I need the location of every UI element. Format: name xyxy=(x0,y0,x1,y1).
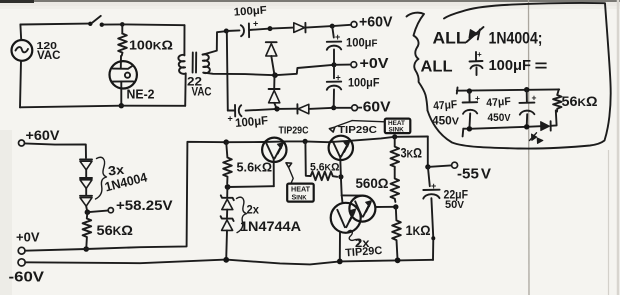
paper crease vertical line xyxy=(528,0,531,295)
wire: secondary bottom to middle rail xyxy=(203,73,275,76)
node: Q2 emitter / R4 xyxy=(338,174,343,179)
node: +60V cap top xyxy=(330,24,335,29)
zener Z2 1N4744A xyxy=(221,216,234,221)
wire: node to D4 xyxy=(277,108,297,110)
wire: top rail to cap C1 xyxy=(226,29,239,32)
node: cap A top xyxy=(467,88,472,93)
wire: 0V rail through Q1 Q2 xyxy=(226,137,428,143)
wire: down from node xyxy=(305,141,310,176)
wire: -60V rail across bottom xyxy=(25,260,433,265)
brace 2x 1N4744A xyxy=(237,197,247,232)
wire: transformer primary down xyxy=(183,25,185,55)
node: bottom junction xyxy=(119,103,124,108)
capacitor C2 100uF (series bottom) xyxy=(234,105,236,117)
wire xyxy=(85,170,87,178)
svg-text:3KΩ: 3KΩ xyxy=(401,145,423,160)
cap doodle xyxy=(470,52,483,75)
wire: node down to D3 xyxy=(273,75,275,89)
resistor R5 3k xyxy=(391,137,400,170)
wire: node to +60V terminal xyxy=(332,25,351,26)
AC source V1 circle xyxy=(12,40,33,61)
node: 56k bottom on 0V rail xyxy=(83,246,89,252)
svg-text:100μF: 100μF xyxy=(348,78,380,90)
wire: zener to -60V rail xyxy=(225,230,228,259)
terminal -60V xyxy=(352,105,358,111)
svg-text:-55V: -55V xyxy=(457,166,491,183)
wire: source bottom to corner xyxy=(20,61,21,108)
wire: 0V rail to regulator top xyxy=(25,142,226,251)
svg-text:5.6KΩ: 5.6KΩ xyxy=(237,160,273,174)
svg-text:+58.25V: +58.25V xyxy=(116,197,173,213)
svg-text:47μF: 47μF xyxy=(486,96,512,110)
wire: switch to resistor node xyxy=(103,23,122,25)
wire: Q2 emitter down xyxy=(340,156,342,195)
node: 0V rail / 3k top + heat sink box 2 xyxy=(392,134,397,139)
wire: node to -55V terminal xyxy=(428,165,451,167)
svg-text:+: + xyxy=(477,50,482,59)
wire: terminal to diode chain xyxy=(25,143,87,157)
wire: 56k down to diode xyxy=(551,111,557,126)
wire: secondary top to top rail xyxy=(203,31,226,55)
node: resistor top junction xyxy=(120,22,125,27)
svg-text:TIP29C: TIP29C xyxy=(338,124,377,136)
node: output xyxy=(425,164,430,169)
node on -60V rail xyxy=(223,257,229,263)
svg-text:+: + xyxy=(253,19,258,29)
resistor R6 560 xyxy=(391,169,400,202)
resistor 56k (bubble) xyxy=(553,89,561,111)
sub-circuit bottom wire xyxy=(463,127,527,137)
wire: tap to terminal xyxy=(87,211,107,213)
capacitor C1 100uF (series top) xyxy=(241,25,244,36)
node: cap B top xyxy=(524,87,529,92)
diode (bubble, points right) xyxy=(541,122,550,131)
wire: node to transformer xyxy=(122,23,184,26)
svg-text:+0V: +0V xyxy=(360,56,389,72)
svg-text:100μF: 100μF xyxy=(233,4,267,18)
wire: Q3 emitter to -60V rail xyxy=(339,232,341,261)
wire: node to -60V terminal xyxy=(334,107,352,109)
diode D7 1N4004 xyxy=(80,195,92,197)
transformer T1 core xyxy=(193,53,197,73)
wire: primary bottom xyxy=(184,73,187,106)
svg-text:+: + xyxy=(335,32,340,42)
resistor R7 1k xyxy=(392,207,401,257)
heat sink box 1 xyxy=(287,184,314,202)
terminal -60V input xyxy=(18,259,25,266)
resistor R1 100k ohm lead xyxy=(121,24,123,33)
NE-2 leads xyxy=(120,56,123,106)
brace 3x 1N4004 xyxy=(96,157,107,199)
terminal +58.25V xyxy=(108,208,113,213)
wire: node to diode D1 xyxy=(270,28,294,29)
terminal +0V xyxy=(351,62,357,68)
wire: 0V rail elbow down to output xyxy=(427,137,429,167)
svg-text:-60V: -60V xyxy=(358,100,391,116)
diode D2 (vertical, points up) xyxy=(266,41,277,43)
node: -60V cap bottom xyxy=(331,105,336,110)
terminal +0V input xyxy=(18,247,25,254)
node on -60V rail (1k) xyxy=(395,257,401,263)
node +58.25V tap xyxy=(85,209,91,215)
wire: C2 to bottom node xyxy=(246,109,277,111)
bubble outline left squiggle xyxy=(407,13,428,111)
node: diode chain top xyxy=(268,26,273,31)
node: top rail left xyxy=(224,29,229,34)
node: zener ref xyxy=(225,184,231,190)
svg-text:100KΩ: 100KΩ xyxy=(129,38,173,53)
wire: +60V cap column top xyxy=(332,26,334,37)
resistor R4 5.6k (horizontal) xyxy=(311,172,338,181)
svg-text:=: = xyxy=(535,58,548,75)
transistor Q3 TIP29C xyxy=(331,203,361,233)
terminal +60V input xyxy=(19,140,25,146)
capacitor 47uF B xyxy=(526,90,528,103)
NE-2 bottom electrode xyxy=(112,80,133,82)
wire: zener node to Q1 emitter xyxy=(228,185,274,188)
svg-text:1N4744A: 1N4744A xyxy=(240,218,301,234)
resistor R2 56k xyxy=(83,212,92,246)
svg-text:450V: 450V xyxy=(488,112,511,124)
right paper edge shade xyxy=(617,0,620,295)
node: cap B bottom xyxy=(524,124,529,129)
svg-text:ALL: ALL xyxy=(421,58,453,75)
svg-text:100μF: 100μF xyxy=(235,113,269,130)
wire: diode to cap B bottom xyxy=(527,125,541,128)
sub-circuit top wire xyxy=(457,88,559,94)
node: bottom rail diode chain xyxy=(274,106,279,111)
wire xyxy=(226,210,228,218)
small blob on cap lead xyxy=(431,236,435,240)
NE-2 dot electrode xyxy=(125,73,130,78)
svg-text:47μF: 47μF xyxy=(433,99,458,113)
diode D6 1N4004 xyxy=(80,177,92,179)
wire xyxy=(85,188,87,195)
resistor R3 5.6k xyxy=(223,142,232,183)
svg-text:-60V: -60V xyxy=(9,270,45,286)
svg-text:+0V: +0V xyxy=(16,230,40,245)
transistor Q4 TIP29C xyxy=(349,196,375,222)
svg-text:560Ω: 560Ω xyxy=(356,175,389,191)
wire: bottom of loop xyxy=(20,106,185,108)
terminal -55V xyxy=(452,162,458,168)
svg-text:56KΩ: 56KΩ xyxy=(562,94,598,109)
capacitor C4 100uF (-60V rail) xyxy=(333,65,335,78)
wire: node to +0V terminal xyxy=(334,64,351,66)
svg-text:450V: 450V xyxy=(432,116,459,128)
wire: vertical elbow to bottom cap C2 xyxy=(228,110,234,112)
small diode doodle with slash (below) xyxy=(532,134,537,140)
wire: D1 to node xyxy=(306,26,333,28)
terminal +60V xyxy=(351,22,357,28)
wire: middle rail with jog xyxy=(275,65,334,75)
wire: source top to corner xyxy=(19,25,22,41)
transformer T1 primary coil xyxy=(178,55,185,74)
resistor R1 100k ohm xyxy=(118,34,127,56)
wire: D4 to node xyxy=(309,108,334,109)
node: 560/1k/Q4 xyxy=(393,204,398,209)
svg-text:TIP29C: TIP29C xyxy=(345,245,383,260)
svg-text:+: + xyxy=(228,114,233,124)
svg-text:+: + xyxy=(532,93,537,103)
diode doodle with slash xyxy=(469,30,478,38)
svg-text:NE-2: NE-2 xyxy=(127,87,155,102)
heat sink arrow Q1 xyxy=(289,167,294,183)
node on -60V rail (Q3) xyxy=(337,259,343,265)
neon lamp NE-2 xyxy=(110,61,137,88)
node: 0V rail / R4 xyxy=(303,139,308,144)
svg-text:50V: 50V xyxy=(445,199,464,211)
wire: top of loop to switch xyxy=(20,23,89,26)
svg-text:+60V: +60V xyxy=(359,14,393,31)
diode D5 1N4004 xyxy=(80,158,92,160)
wire: C1 to node xyxy=(249,29,270,30)
wire: to Q3/Q4 tops xyxy=(342,194,363,196)
scan top edge xyxy=(0,0,620,2)
svg-text:VAC: VAC xyxy=(37,50,61,62)
node: 0V rail / 5.6k top xyxy=(223,139,229,145)
switch S1 xyxy=(88,22,92,26)
squiggle leader 2x TIP29C xyxy=(348,230,359,244)
AC source sine symbol xyxy=(16,47,29,52)
diode D4 (bottom rail, points left) xyxy=(296,104,298,113)
node: 0V caps junction xyxy=(332,62,337,67)
node: middle rail junction xyxy=(272,72,278,78)
capacitor C5 22uF xyxy=(428,167,430,186)
node: cap A bottom xyxy=(467,126,472,131)
NE-2 top electrode xyxy=(113,66,133,69)
svg-text:2x: 2x xyxy=(247,203,260,217)
wire: Q1 emitter down xyxy=(273,158,275,186)
svg-text:SINK: SINK xyxy=(389,127,405,134)
svg-text:5.6KΩ: 5.6KΩ xyxy=(310,162,340,174)
diode D3 (vertical, points up) xyxy=(269,88,280,90)
wire: D2 to middle rail node xyxy=(271,56,274,75)
transformer T1 secondary coil xyxy=(203,54,210,73)
svg-text:+60V: +60V xyxy=(26,128,60,143)
capacitor 47uF A xyxy=(468,91,470,102)
wire: vertical from node down to bottom cap xyxy=(227,31,228,111)
transistor Q1 TIP29C xyxy=(262,138,286,162)
svg-text:+: + xyxy=(475,93,480,103)
bubble outline bottom and right xyxy=(428,3,611,149)
leader from heat sink 2 to Q2 xyxy=(352,121,385,122)
zener Z1 1N4744A xyxy=(226,187,228,197)
svg-text:1N4004;: 1N4004; xyxy=(489,29,543,47)
transistor Q2 TIP29C xyxy=(329,136,353,160)
svg-text:TIP29C: TIP29C xyxy=(279,126,309,137)
svg-text:ALL: ALL xyxy=(433,29,467,48)
svg-text:100μF: 100μF xyxy=(346,38,378,50)
diode D1 (top rail, points right) xyxy=(294,23,305,33)
wire xyxy=(86,206,87,211)
svg-text:VAC: VAC xyxy=(192,86,212,98)
wire: Q4 to resistor column xyxy=(375,206,395,208)
svg-text:100μF: 100μF xyxy=(489,58,532,74)
wire: D3 to bottom rail xyxy=(274,103,277,109)
heat sink box 2 xyxy=(385,119,411,134)
